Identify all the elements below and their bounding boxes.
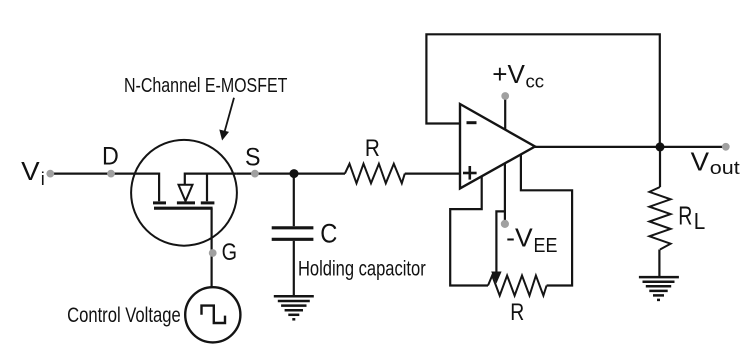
resistor RL load <box>649 187 670 250</box>
output junction node <box>656 142 665 151</box>
svg-text:R: R <box>365 135 380 162</box>
svg-text:R: R <box>510 299 524 326</box>
svg-text:S: S <box>245 144 261 172</box>
pulse waveform symbol inside source <box>202 306 226 323</box>
capacitor C plates <box>272 228 314 240</box>
label RL <box>678 202 705 234</box>
label -Vee <box>506 225 557 257</box>
svg-text:+V: +V <box>492 61 525 89</box>
svg-text:N-Channel E-MOSFET: N-Channel E-MOSFET <box>124 74 288 97</box>
control voltage source circle <box>185 287 240 342</box>
MOSFET gate bar <box>154 207 213 210</box>
node dot G <box>209 249 217 257</box>
wire -Vee supply from op-amp bottom <box>504 163 506 220</box>
svg-text:Holding capacitor: Holding capacitor <box>298 257 426 280</box>
wire RL to ground <box>658 250 660 278</box>
offset null wire right <box>521 155 572 286</box>
offset null wire left <box>450 177 488 286</box>
MOSFET drain internal wire and contact bar <box>132 174 167 203</box>
wire S to junction and resistor R <box>237 173 345 175</box>
annotation arrow pointing to MOSFET <box>219 98 234 141</box>
terminal dot +Vcc <box>501 92 509 100</box>
svg-text:-V: -V <box>506 225 533 253</box>
wire op-amp output to Vout terminal <box>535 146 726 148</box>
label Vout <box>691 149 740 179</box>
svg-text:Control Voltage: Control Voltage <box>67 303 181 327</box>
wire output junction down to load resistor <box>659 147 661 187</box>
svg-text:out: out <box>710 158 740 178</box>
wire Vi to drain D <box>52 173 132 175</box>
junction node at capacitor <box>290 169 299 178</box>
svg-text:V: V <box>691 149 709 177</box>
feedback wire output to inverting input <box>426 34 659 147</box>
node dot D <box>107 170 115 178</box>
wire junction to holding capacitor <box>293 174 295 227</box>
svg-text:V: V <box>21 158 40 186</box>
wire capacitor to ground <box>293 241 295 296</box>
svg-text:L: L <box>694 208 706 234</box>
input terminal dot Vi <box>46 170 54 178</box>
transistor N-Channel E-MOSFET body circle <box>131 140 237 246</box>
label +Vcc <box>492 61 544 92</box>
ground below RL <box>639 277 679 300</box>
svg-text:R: R <box>678 202 692 230</box>
MOSFET substrate stub with arrow <box>177 174 207 203</box>
wiper arrowhead <box>491 272 501 284</box>
svg-text:G: G <box>222 239 237 266</box>
svg-text:cc: cc <box>526 71 545 92</box>
node dot S <box>251 170 259 178</box>
label Vi <box>21 158 45 189</box>
terminal dot -Vee <box>501 220 509 228</box>
potentiometer R offset null <box>488 276 547 296</box>
svg-text:i: i <box>41 169 45 189</box>
svg-text:C: C <box>320 218 337 248</box>
wire gate to control voltage source <box>211 208 213 287</box>
op-amp non-inverting input plus sign <box>463 166 477 180</box>
resistor R series <box>345 164 405 184</box>
svg-text:EE: EE <box>534 235 558 257</box>
wire +Vcc terminal to op-amp <box>504 99 506 130</box>
MOSFET source internal wire and contact bar <box>201 174 237 203</box>
ground below capacitor <box>274 296 314 319</box>
output terminal dot Vout <box>722 143 730 151</box>
svg-text:D: D <box>102 143 119 171</box>
wire R to op-amp non-inverting input <box>405 173 459 175</box>
wiper branch wire to potentiometer <box>496 211 505 272</box>
op-amp U1 triangle <box>460 104 535 188</box>
op-amp inverting input minus sign <box>467 121 477 124</box>
